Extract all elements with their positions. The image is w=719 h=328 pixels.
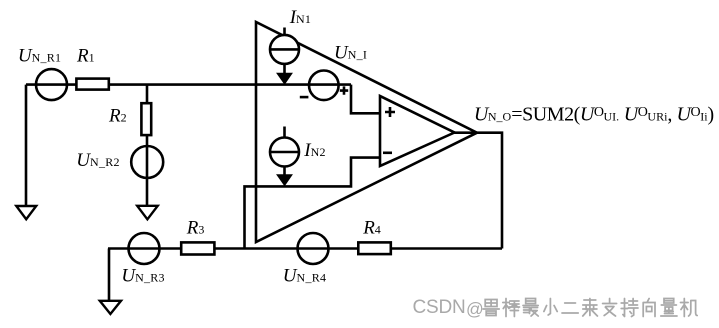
svg-text:R1: R1 bbox=[76, 45, 95, 66]
svg-text:UN_R4: UN_R4 bbox=[283, 266, 326, 287]
svg-text:UN_I: UN_I bbox=[334, 42, 367, 63]
svg-text:R2: R2 bbox=[108, 106, 127, 127]
svg-text:R3: R3 bbox=[186, 218, 205, 239]
svg-text:UN_R1: UN_R1 bbox=[18, 45, 61, 66]
svg-text:IN2: IN2 bbox=[303, 140, 326, 161]
svg-text:IN1: IN1 bbox=[289, 7, 312, 28]
svg-text:UN_R3: UN_R3 bbox=[121, 265, 164, 286]
svg-text:UN_O=SUM2(UOUI. UOURi, UOIi): UN_O=SUM2(UOUI. UOURi, UOIi) bbox=[474, 103, 714, 125]
svg-text:R4: R4 bbox=[362, 218, 381, 239]
svg-text:UN_R2: UN_R2 bbox=[76, 150, 119, 171]
